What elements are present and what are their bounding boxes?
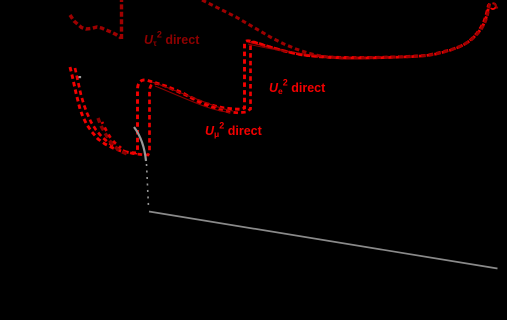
extra bright dashed fragment inside the valley — [102, 122, 121, 148]
curve Utau left vertical rise — [120, 0, 123, 39]
gray dotted continuation — [147, 164, 149, 207]
curve Utau right branch (dark red dashed, descends then flat then rises) — [202, 0, 490, 58]
thin solid wedge lines after second step — [248, 42, 322, 57]
svg-text:Ue2 direct: Ue2 direct — [269, 78, 326, 97]
top-right endpoint cluster — [491, 3, 496, 9]
curve Utau left dip (dark red dashed) — [70, 15, 121, 38]
svg-text:Uμ2 direct: Uμ2 direct — [205, 121, 263, 140]
curve Ue direct (bright red dashed, offset twin) — [75, 5, 489, 156]
curve Umu direct (bright red dashed) — [70, 4, 490, 154]
thin solid line under mid slope (upper) — [152, 82, 233, 111]
thin solid line under mid slope (lower) — [155, 86, 230, 113]
gray speck on valley upper-left — [79, 76, 82, 78]
extra dark dashed fragments inside the valley — [98, 118, 127, 154]
gray curve dropping through valley floor — [134, 127, 146, 161]
svg-text:Uτ2 direct: Uτ2 direct — [144, 30, 200, 49]
gray diagonal seesaw line — [149, 212, 498, 269]
